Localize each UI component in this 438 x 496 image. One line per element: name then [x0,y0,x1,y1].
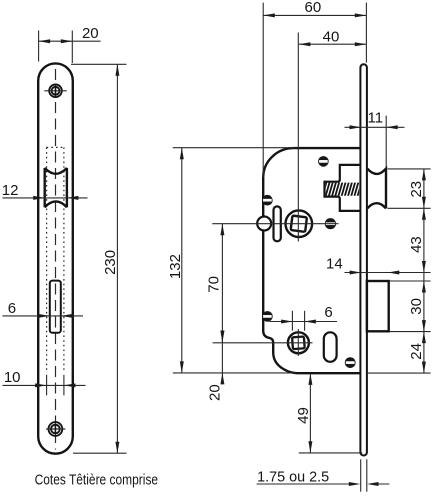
svg-text:6: 6 [324,304,332,321]
svg-text:10: 10 [4,369,21,386]
svg-text:11: 11 [368,110,384,127]
svg-text:20: 20 [207,384,224,401]
svg-text:6: 6 [8,300,16,317]
svg-text:70: 70 [205,276,222,293]
svg-text:132: 132 [167,254,184,279]
svg-text:23: 23 [408,181,425,198]
svg-text:20: 20 [82,25,99,42]
svg-text:40: 40 [323,28,340,45]
svg-text:60: 60 [305,0,322,16]
svg-text:43: 43 [408,236,425,253]
svg-text:1.75 ou 2.5: 1.75 ou 2.5 [257,468,329,485]
svg-text:230: 230 [102,250,119,275]
svg-text:24: 24 [408,343,425,360]
svg-text:Cotes Têtière comprise: Cotes Têtière comprise [35,472,159,489]
svg-text:14: 14 [326,256,343,273]
svg-text:12: 12 [2,182,19,199]
svg-text:30: 30 [408,298,425,315]
svg-text:49: 49 [295,407,312,424]
